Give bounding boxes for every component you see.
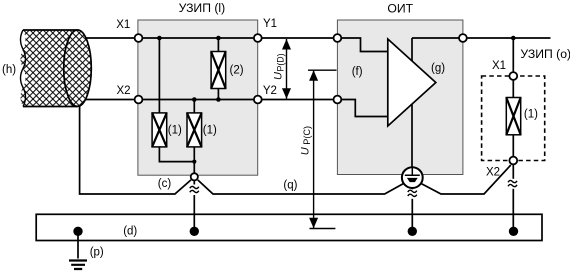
svg-text:ОИТ: ОИТ xyxy=(387,1,413,15)
svg-text:X2: X2 xyxy=(117,85,131,97)
svg-text:(h): (h) xyxy=(2,64,16,76)
svg-text:Y2: Y2 xyxy=(263,85,277,97)
svg-text:X1: X1 xyxy=(116,19,130,31)
svg-text:X1: X1 xyxy=(492,60,506,72)
svg-text:(c): (c) xyxy=(158,178,172,190)
svg-text:(p): (p) xyxy=(90,247,104,259)
svg-text:(q): (q) xyxy=(283,179,297,191)
svg-text:X2: X2 xyxy=(486,167,500,179)
svg-text:P(C): P(C) xyxy=(302,126,312,145)
svg-text:U: U xyxy=(300,147,312,155)
svg-text:(1): (1) xyxy=(524,108,538,120)
svg-text:(d): (d) xyxy=(123,226,137,238)
svg-text:U: U xyxy=(272,72,284,80)
svg-text:УЗИП (o): УЗИП (o) xyxy=(520,47,570,61)
svg-text:P(D): P(D) xyxy=(275,53,285,71)
svg-text:(g): (g) xyxy=(431,63,445,75)
svg-text:(f): (f) xyxy=(352,66,363,78)
svg-text:(1): (1) xyxy=(203,124,217,136)
svg-text:(2): (2) xyxy=(230,65,244,77)
svg-text:УЗИП (l): УЗИП (l) xyxy=(179,1,226,15)
svg-text:(1): (1) xyxy=(168,124,182,136)
svg-text:Y1: Y1 xyxy=(263,18,277,30)
